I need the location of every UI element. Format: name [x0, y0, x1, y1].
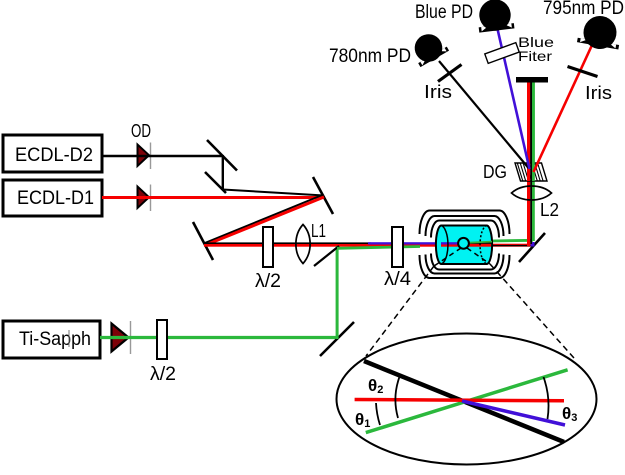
- mirror M6 Ti-Sapph: [320, 322, 354, 356]
- wire black beam ECDL-D2 horizontal: [102, 155, 223, 157]
- waveplate lambda/2 (top): [263, 227, 273, 267]
- mirror M2: [205, 172, 226, 193]
- dashed zoom line inside cell right: [467, 248, 490, 264]
- laser box Ti-Sapph: [3, 321, 100, 358]
- wire black beam inside cell: [441, 243, 492, 244]
- wire green beam to cell: [337, 247, 420, 249]
- wire purple beam inside cell: [441, 242, 458, 244]
- mirror M3: [313, 177, 333, 214]
- cell left rim arc: [441, 226, 448, 265]
- angle arc theta1: [376, 403, 380, 425]
- inset red line: [355, 400, 564, 401]
- oven top staple outer: [420, 211, 510, 235]
- dashed zoom line right: [490, 264, 574, 358]
- mirror M7 to vertical: [519, 233, 545, 262]
- wire black beam diagonal to mirror M3: [223, 190, 324, 196]
- wire black beam vertical: [530, 81, 532, 244]
- vapor cell body: [436, 226, 492, 265]
- blue filter: [485, 43, 519, 64]
- cell right rim arc dotted: [480, 226, 487, 265]
- svg-text:Fiter: Fiter: [518, 48, 552, 64]
- waveplate lambda/2 (bottom): [157, 320, 167, 359]
- oven top staple middle: [426, 216, 504, 236]
- svg-text:L2: L2: [540, 200, 559, 220]
- svg-text:795nm PD: 795nm PD: [543, 0, 624, 19]
- oven bottom staple outer: [420, 255, 510, 278]
- laser box ECDL-D2: [3, 135, 102, 172]
- wire purple dot at mirror: [531, 242, 535, 247]
- wire black beam thin over red: [204, 242, 371, 244]
- svg-text:DG: DG: [483, 162, 507, 182]
- angle arc theta2: [395, 377, 399, 418]
- wire red beam diagonal M3 to M4: [204, 197, 324, 246]
- optical isolator OD (ECDL-D2): [138, 143, 151, 170]
- dashed zoom line inside cell left: [434, 248, 461, 266]
- lens L1: [296, 225, 310, 264]
- iris (780nm arm): [438, 65, 462, 82]
- mirror M4: [193, 222, 213, 260]
- wire black beam diagonal M3 to M4: [205, 195, 324, 244]
- optical isolator (ECDL-D1): [138, 185, 151, 212]
- svg-text:OD: OD: [131, 121, 151, 141]
- wire red beam vertical: [527, 81, 530, 246]
- oven bottom staple middle: [426, 255, 504, 274]
- wire red main beam horizontal to mirror M7: [204, 244, 531, 247]
- mirror M1: [207, 140, 237, 171]
- svg-text:L1: L1: [311, 221, 326, 241]
- svg-text:λ/4: λ/4: [384, 269, 411, 290]
- inset green line: [366, 370, 568, 433]
- svg-text:λ/2: λ/2: [150, 364, 176, 385]
- dashed zoom line left: [366, 266, 434, 356]
- diffraction grating DG hatched: [515, 163, 547, 181]
- wire green beam vertical up: [336, 246, 339, 339]
- inset black line: [364, 361, 564, 442]
- wire red beam vertical above DG (redraw over grating): [527, 81, 530, 181]
- wire green beam vertical: [532, 81, 535, 241]
- inset ellipse: [337, 334, 597, 465]
- wire black diffracted beam to 780nm PD: [439, 61, 529, 168]
- lens L2: [512, 186, 552, 200]
- wire red beam inside cell: [441, 244, 491, 247]
- photodetector 795nm PD: [576, 13, 623, 53]
- wire green beam Ti-Sapph horizontal: [100, 336, 339, 339]
- svg-text:Iris: Iris: [424, 82, 452, 102]
- inset blue line: [462, 401, 565, 425]
- angle arc theta3: [544, 377, 549, 419]
- wire green beam out of cell: [490, 239, 533, 242]
- oven top staple inner: [431, 221, 499, 238]
- wire black beam under red after cell: [490, 245, 531, 246]
- interaction point circle: [458, 238, 469, 249]
- photodetector Blue PD: [476, 0, 515, 33]
- wire black beam vertical above DG: [530, 81, 532, 181]
- waveplate lambda/4: [392, 227, 403, 267]
- wire blue diffracted beam to Blue PD: [498, 29, 530, 169]
- wire green beam inside cell: [469, 242, 492, 243]
- oven bottom staple inner: [431, 254, 499, 270]
- wire black beam vertical drop: [222, 155, 224, 190]
- svg-text:λ/2: λ/2: [255, 271, 281, 292]
- wire green beam vertical above DG: [532, 81, 535, 181]
- photodetector 780nm PD: [407, 28, 449, 68]
- svg-text:780nm PD: 780nm PD: [329, 46, 411, 67]
- wire purple blue beam over red: [368, 242, 492, 244]
- laser box ECDL-D1: [3, 180, 102, 216]
- svg-text:Blue PD: Blue PD: [415, 2, 473, 23]
- beam block: [516, 77, 548, 83]
- svg-text:Ti-Sapph: Ti-Sapph: [19, 329, 91, 350]
- svg-text:ECDL-D2: ECDL-D2: [15, 145, 93, 166]
- svg-text:ECDL-D1: ECDL-D1: [17, 188, 94, 209]
- optical isolator (Ti-Sapph): [112, 321, 131, 354]
- mirror M5 green merge: [314, 246, 339, 266]
- iris (795nm arm): [568, 67, 598, 77]
- wire red diffracted beam to 795nm PD: [534, 44, 593, 172]
- svg-text:Iris: Iris: [585, 83, 612, 103]
- wire red beam ECDL-D1 horizontal: [102, 196, 325, 199]
